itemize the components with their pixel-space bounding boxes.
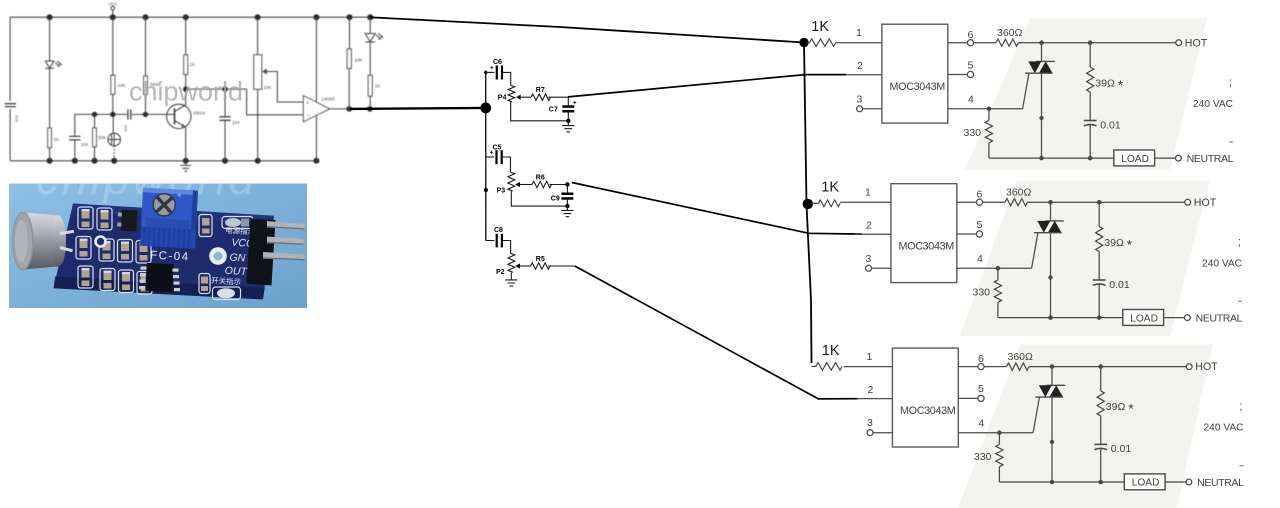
wire left edge	[9, 17, 11, 161]
resistor R7	[531, 87, 568, 100]
svg-text:P3: P3	[497, 188, 506, 195]
svg-text:5: 5	[977, 219, 983, 231]
resistor 39 ohm snubber	[1096, 200, 1133, 280]
capacitor 104 (left edge)	[5, 104, 16, 107]
svg-text:6: 6	[977, 189, 983, 201]
svg-text:+: +	[306, 100, 310, 107]
svg-text:3: 3	[857, 93, 863, 105]
wire neutral rail	[989, 157, 1114, 159]
resistor R5	[531, 256, 575, 269]
potentiometer 10K	[254, 17, 304, 161]
resistor 10K (mic supply)	[111, 17, 126, 114]
pin 5 terminal	[958, 383, 984, 401]
svg-text:LOAD: LOAD	[1130, 313, 1158, 324]
triac	[1025, 40, 1055, 160]
pin 4 wire	[958, 418, 1033, 436]
wire bottom ground rail	[10, 160, 316, 162]
capacitor 0.01 snubber	[1084, 119, 1121, 160]
svg-text:;: ;	[1238, 235, 1241, 249]
capacitor 104 (series to base)	[124, 109, 131, 132]
stray dash	[1229, 141, 1233, 143]
capacitor C8	[486, 227, 511, 253]
svg-text:P4: P4	[498, 95, 507, 102]
svg-text:6: 6	[968, 29, 974, 41]
SOT-23 transistor	[117, 209, 138, 231]
svg-text:HOT: HOT	[1195, 361, 1218, 373]
capacitor C5	[486, 144, 511, 172]
node dots mic wire	[92, 112, 148, 117]
svg-text:1K: 1K	[375, 84, 381, 89]
node junction circuit 2	[803, 199, 813, 209]
resistor 1K (D1 branch)	[48, 128, 59, 161]
terminal HOT	[1176, 37, 1208, 49]
pin 6 terminal	[957, 189, 1005, 206]
wire top rail to circuit 1	[370, 17, 804, 42]
wire neutral rail	[999, 481, 1124, 483]
svg-text:10K: 10K	[118, 83, 126, 88]
svg-text:0.01: 0.01	[1109, 279, 1130, 291]
svg-text:MOC3043M: MOC3043M	[900, 405, 956, 417]
svg-text:1: 1	[865, 187, 871, 199]
LED D2	[365, 17, 382, 75]
trimmer potentiometer	[140, 188, 198, 249]
power LED footprint	[222, 217, 253, 229]
svg-text:2: 2	[866, 220, 872, 232]
wire vertical bus to circuits	[804, 43, 812, 364]
pin 2 wire	[855, 220, 891, 235]
resistor 39 ohm snubber	[1087, 40, 1124, 120]
microphone capsule	[13, 212, 66, 269]
resistor R6	[532, 174, 570, 187]
VCC symbol	[108, 2, 117, 18]
load box	[1114, 150, 1175, 166]
electret microphone	[108, 114, 121, 160]
pin 4 wire	[948, 94, 1023, 112]
svg-text:开关指示: 开关指示	[211, 275, 242, 287]
optocoupler U1 MOC3043M	[882, 24, 948, 123]
watermark band behind optocoupler circuit 3	[958, 345, 1213, 508]
pin 2 wire	[846, 60, 882, 75]
resistor 330	[974, 433, 1003, 482]
resistor 50K	[93, 114, 107, 160]
capacitor 104 (mic node to ground)	[69, 114, 89, 160]
svg-text:1K: 1K	[54, 137, 60, 142]
capacitor C6	[486, 59, 511, 86]
svg-text:3: 3	[867, 417, 873, 429]
pin 3 terminal	[866, 253, 891, 271]
svg-text:1K: 1K	[190, 62, 196, 67]
svg-text:chipworld: chipworld	[129, 77, 243, 107]
pin 5 terminal	[957, 219, 983, 237]
wire neutral rail	[998, 317, 1123, 319]
svg-text:1: 1	[867, 351, 873, 363]
svg-text:R7: R7	[536, 87, 545, 94]
terminal NEUTRAL	[1186, 477, 1244, 489]
svg-text:50K: 50K	[98, 135, 106, 140]
svg-text:C7: C7	[549, 107, 558, 114]
svg-text:240 VAC: 240 VAC	[1202, 258, 1242, 269]
ground (emitter)	[180, 161, 191, 171]
svg-text:4: 4	[968, 94, 974, 106]
svg-text:1K: 1K	[821, 180, 839, 196]
svg-text:10K: 10K	[355, 58, 363, 63]
svg-text:5: 5	[968, 59, 974, 71]
wire op-amp output to junction	[350, 108, 486, 109]
header pin 3	[263, 252, 305, 260]
svg-text:MOC3043M: MOC3043M	[890, 81, 946, 93]
svg-text:NEUTRAL: NEUTRAL	[1197, 477, 1244, 489]
transistor S9014	[167, 89, 206, 161]
terminal HOT	[1185, 197, 1217, 209]
wire hot rail	[1019, 42, 1176, 44]
mic pin 2	[60, 248, 73, 251]
svg-text:S9014: S9014	[193, 111, 206, 116]
resistor 560K	[144, 17, 161, 114]
resistor 10K (pull-up)	[347, 17, 362, 109]
svg-text:C6: C6	[493, 59, 502, 66]
resistor 39 ohm snubber	[1097, 364, 1134, 444]
node C6 tap	[484, 71, 487, 74]
watermark band behind optocoupler circuit 2	[960, 181, 1210, 337]
wire top supply rail	[10, 16, 370, 18]
pin 2 wire	[857, 384, 893, 399]
svg-text:FC-04: FC-04	[150, 250, 190, 264]
svg-text:P2: P2	[496, 269, 505, 276]
terminal NEUTRAL	[1185, 313, 1243, 325]
svg-text:0.01: 0.01	[1111, 443, 1132, 455]
ground (P2)	[505, 273, 517, 287]
svg-text:240 VAC: 240 VAC	[1204, 423, 1244, 434]
node big junction	[480, 103, 491, 114]
svg-text:C9: C9	[551, 196, 560, 203]
capacitor 0.01 snubber	[1094, 443, 1131, 484]
svg-text:GN: GN	[229, 251, 246, 264]
node dots collector	[183, 86, 228, 91]
resistor 360 ohm	[996, 27, 1023, 46]
wire hot rail	[1029, 366, 1186, 368]
load box	[1123, 310, 1184, 326]
capacitor 0.01 snubber	[1093, 279, 1130, 320]
svg-text:LM393: LM393	[322, 96, 336, 101]
svg-text:R5: R5	[536, 256, 545, 263]
resistor 1K (circuit 1)	[806, 39, 836, 47]
wire mic output node	[75, 113, 167, 115]
stray dash	[1238, 300, 1242, 302]
stray dash	[1240, 465, 1244, 467]
resistor 1K (collector)	[184, 17, 195, 89]
wire hot rail	[1028, 201, 1185, 203]
svg-text:360Ω: 360Ω	[997, 27, 1023, 39]
svg-text:4: 4	[979, 418, 985, 430]
svg-text:−: −	[306, 113, 310, 120]
potentiometer P4	[498, 85, 569, 120]
wire collector node	[186, 89, 304, 115]
svg-text:LOAD: LOAD	[1132, 478, 1160, 489]
wire branch3 to circuit 3 pin 2	[575, 266, 858, 399]
resistor 1K (circuit 2)	[811, 200, 840, 207]
silkscreen labels	[211, 224, 256, 287]
svg-text:104: 104	[81, 142, 89, 147]
capacitor C9	[551, 185, 574, 209]
pin 3 terminal	[867, 417, 892, 436]
wire branch1 to circuit 1 pin 2	[568, 75, 846, 97]
resistor 1K (circuit 3)	[812, 363, 843, 371]
triac	[1036, 364, 1066, 484]
svg-text:C5: C5	[493, 144, 502, 151]
op-amp LM393	[303, 96, 335, 122]
svg-text:4: 4	[977, 253, 983, 265]
mic solder pad	[96, 237, 106, 247]
node dots output	[346, 106, 372, 112]
pin header block	[247, 219, 276, 286]
svg-text:1: 1	[856, 27, 862, 39]
load box	[1124, 474, 1185, 490]
pin 4 wire	[957, 253, 1032, 271]
SMD resistors white outlines	[76, 207, 212, 294]
svg-text:C8: C8	[494, 227, 503, 234]
watermark band behind optocoupler circuit 1	[965, 18, 1207, 170]
svg-text:;: ;	[1239, 399, 1242, 413]
potentiometer P3	[497, 172, 568, 206]
svg-text:10K: 10K	[264, 85, 272, 90]
header pin 1	[267, 221, 305, 230]
SOIC-8 op-amp chip	[139, 263, 180, 292]
switch LED footprint	[213, 287, 241, 300]
pin 6 terminal	[948, 29, 996, 46]
svg-text:0.01: 0.01	[1100, 119, 1121, 131]
wire middle vertical bus	[485, 71, 487, 241]
resistor 330	[964, 109, 993, 158]
potentiometer P2	[496, 253, 531, 275]
header pin 2	[267, 237, 304, 245]
node dots bottom rail	[47, 158, 320, 164]
svg-text:330: 330	[974, 451, 992, 463]
svg-text:R6: R6	[536, 174, 545, 181]
svg-text:;: ;	[1229, 75, 1232, 89]
ground (C7)	[562, 121, 574, 132]
svg-text:104: 104	[15, 115, 20, 122]
ground (C9)	[561, 206, 573, 217]
capacitor C7	[549, 97, 576, 123]
svg-text:1K: 1K	[811, 19, 829, 35]
resistor 1K (LED D2)	[368, 75, 380, 109]
SMD pads	[80, 211, 210, 292]
resistor 360 ohm	[1005, 187, 1032, 206]
pin 5 terminal	[948, 59, 974, 77]
wire vertical mid	[315, 17, 317, 161]
pin 3 terminal	[857, 93, 882, 112]
triac	[1034, 200, 1064, 320]
pin 6 terminal	[958, 353, 1006, 370]
triac gate wire	[1023, 73, 1029, 108]
node small mid	[484, 188, 488, 192]
svg-text:MOC3043M: MOC3043M	[899, 241, 955, 253]
svg-text:NEUTRAL: NEUTRAL	[1187, 153, 1234, 165]
svg-text:360Ω: 360Ω	[1006, 187, 1032, 199]
svg-text:1K: 1K	[822, 343, 840, 359]
optocoupler U2 MOC3043M	[891, 184, 957, 283]
svg-text:330: 330	[973, 287, 991, 299]
optocoupler U3 MOC3043M	[892, 348, 958, 447]
LED D1	[45, 17, 61, 128]
triac gate wire	[1032, 233, 1038, 268]
svg-text:6: 6	[978, 353, 984, 365]
terminal NEUTRAL	[1176, 153, 1234, 165]
terminal HOT	[1186, 361, 1218, 373]
svg-text:2: 2	[868, 384, 874, 396]
wire branch2 to circuit 2 pin 2	[572, 183, 862, 235]
svg-text:VCC: VCC	[108, 2, 117, 7]
resistor 330	[973, 268, 1002, 317]
node junction circuit 1	[799, 38, 808, 47]
svg-text:HOT: HOT	[1185, 37, 1208, 49]
mic pin 1	[60, 231, 74, 233]
sensor PCB board	[54, 204, 275, 300]
svg-text:3: 3	[866, 253, 872, 265]
svg-text:360Ω: 360Ω	[1008, 351, 1034, 363]
svg-text:330: 330	[964, 127, 982, 139]
svg-text:NEUTRAL: NEUTRAL	[1196, 313, 1243, 325]
wire op-amp output	[330, 108, 370, 110]
mounting hole	[209, 247, 227, 265]
triac gate wire	[1033, 397, 1039, 432]
svg-text:104: 104	[232, 120, 240, 125]
white pad highlights	[80, 209, 149, 276]
capacitor 104 (collector to ground)	[219, 89, 240, 161]
node dots top rail	[47, 14, 374, 20]
svg-text:240 VAC: 240 VAC	[1193, 99, 1233, 110]
svg-text:LOAD: LOAD	[1121, 154, 1149, 165]
svg-text:2: 2	[857, 60, 863, 72]
svg-text:HOT: HOT	[1194, 197, 1217, 209]
resistor 360 ohm	[1007, 351, 1034, 370]
svg-text:104: 104	[124, 125, 129, 132]
svg-text:5: 5	[978, 383, 984, 395]
